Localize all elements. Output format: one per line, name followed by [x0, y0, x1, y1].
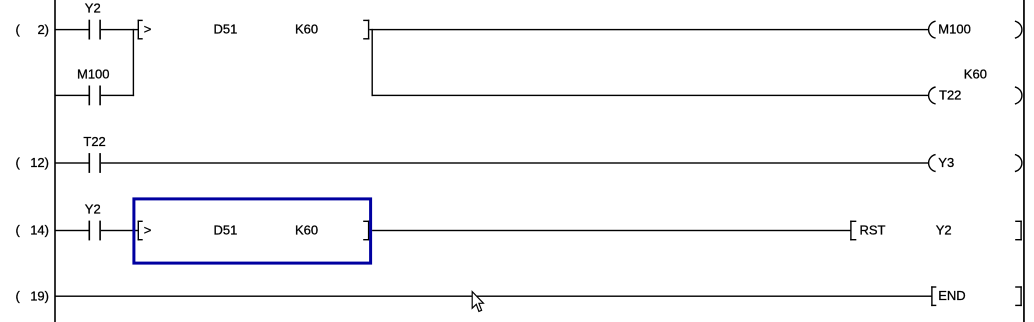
rung 4 step number ( 19) — [16, 288, 50, 303]
svg-text:(: ( — [16, 22, 21, 37]
rung 3 step number ( 14) — [16, 223, 50, 238]
compare instruction open bracket [ (rung1) — [138, 20, 143, 40]
svg-text:END: END — [938, 288, 965, 303]
svg-text:>: > — [144, 223, 152, 238]
svg-text:19): 19) — [30, 288, 49, 303]
wire: contact M100 to junction — [101, 95, 134, 96]
svg-text:(: ( — [16, 155, 21, 170]
svg-text:(: ( — [16, 288, 21, 303]
wire rung3: left rail to contact Y2 — [55, 230, 89, 231]
svg-text:>: > — [144, 22, 152, 37]
END instruction open bracket [ — [931, 286, 936, 306]
svg-text:Y2: Y2 — [936, 223, 952, 238]
rung 1 step number ( 2) — [16, 22, 50, 37]
wire rung1: compare instruction to coil M100 — [369, 29, 929, 30]
node B: output branch junction vertical wire — [372, 29, 373, 96]
mouse cursor arrow — [472, 292, 483, 312]
compare instruction close bracket ] (rung3) — [363, 221, 369, 241]
rung 2 step number ( 12) — [16, 155, 50, 170]
svg-text:RST: RST — [860, 223, 886, 238]
svg-text:12): 12) — [30, 155, 49, 170]
RST instruction open bracket [ — [850, 221, 856, 241]
svg-text:Y2: Y2 — [85, 202, 101, 217]
svg-text:K60: K60 — [295, 22, 318, 37]
coil T22 — [929, 87, 1022, 104]
wire rung4: left rail to END instruction — [55, 296, 932, 297]
svg-text:Y2: Y2 — [85, 1, 101, 16]
svg-text:2): 2) — [37, 22, 49, 37]
wire rung2: left rail to contact T22 — [55, 162, 89, 163]
wire branch: junction to coil T22 — [372, 95, 929, 96]
coil M100 — [929, 21, 1022, 38]
RST instruction close bracket ] — [1015, 221, 1022, 241]
svg-text:14): 14) — [30, 223, 49, 238]
compare instruction open bracket [ (rung3) — [138, 221, 143, 241]
svg-text:T22: T22 — [83, 134, 105, 149]
wire rung2: contact T22 to coil Y3 — [101, 162, 929, 163]
wire rung3: contact Y2 to compare instruction — [101, 230, 138, 231]
contact Y2 — [89, 20, 101, 40]
node A: parallel branch junction vertical wire — [133, 29, 134, 96]
contact M100 — [89, 86, 101, 106]
contact T22 — [89, 153, 101, 173]
contact Y2 (rung3) — [89, 221, 101, 241]
selection cursor blue box around compare instruction — [134, 199, 371, 263]
svg-text:M100: M100 — [77, 66, 110, 81]
wire rung1: contact Y2 to compare instruction — [101, 29, 138, 30]
svg-text:D51: D51 — [214, 22, 238, 37]
right power rail — [1023, 0, 1025, 322]
coil Y3 — [929, 155, 1022, 172]
svg-text:T22: T22 — [939, 87, 961, 102]
wire rung3: compare instruction to RST instruction — [372, 230, 850, 231]
svg-text:Y3: Y3 — [938, 155, 954, 170]
svg-text:M100: M100 — [938, 22, 971, 37]
parallel contact M100 wire: left rail to contact — [55, 95, 89, 96]
svg-text:K60: K60 — [295, 223, 318, 238]
wire rung1: left rail to contact Y2 — [55, 29, 89, 30]
svg-text:K60: K60 — [964, 66, 987, 81]
left power rail — [54, 0, 56, 322]
svg-text:(: ( — [16, 223, 21, 238]
svg-text:D51: D51 — [214, 223, 238, 238]
compare instruction close bracket ] (rung1) — [363, 20, 369, 40]
END instruction close bracket ] — [1015, 286, 1022, 306]
